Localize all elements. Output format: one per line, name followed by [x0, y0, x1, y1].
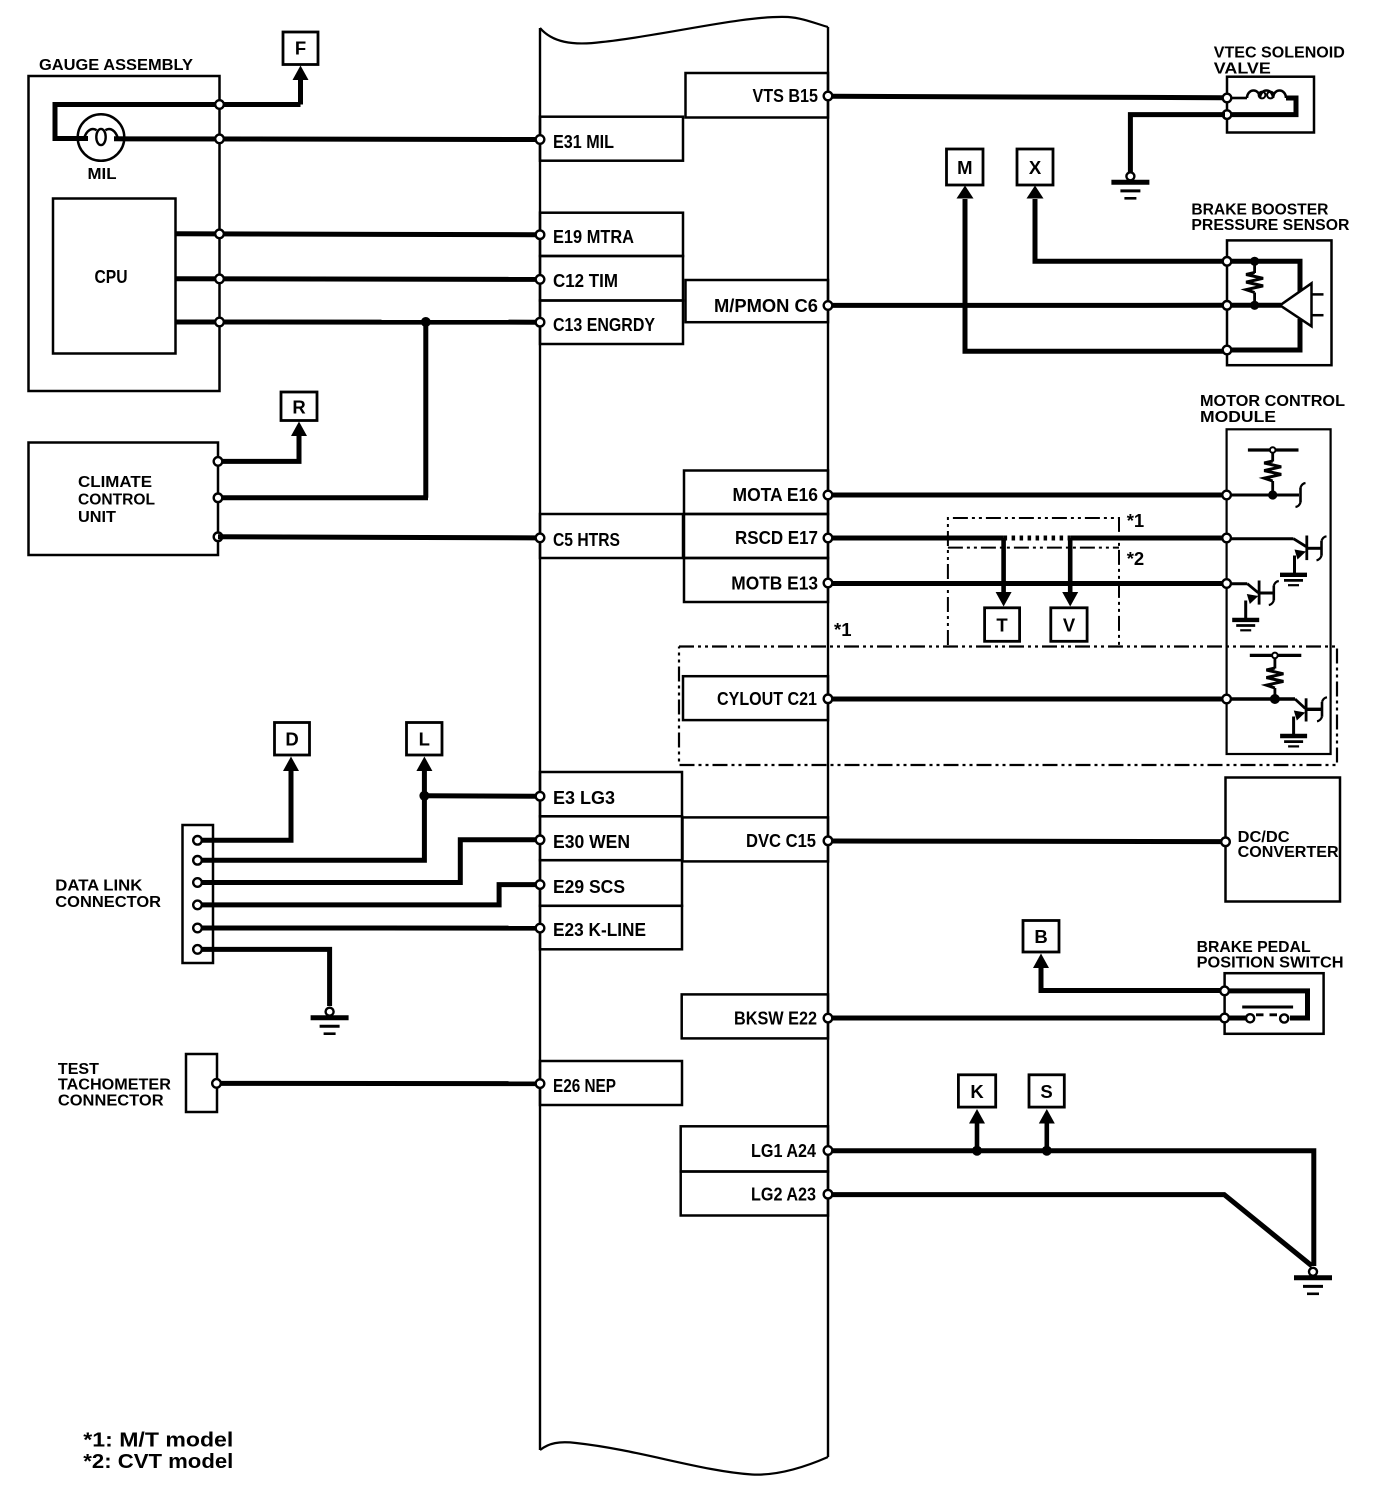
node junction dot CYLOUT [1270, 694, 1280, 704]
svg-text:TEST: TEST [58, 1061, 99, 1078]
op-amp triangle in sensor [1280, 283, 1312, 326]
arrowhead into D [283, 757, 299, 772]
wire MOTA E16 to module [832, 493, 1223, 498]
svg-text:C13 ENGRDY: C13 ENGRDY [553, 314, 656, 335]
ground at Q2 emitter [1232, 620, 1259, 630]
wire MOTB E13 to module [832, 581, 1223, 586]
transistor Q2 (MOTB) [1230, 581, 1273, 619]
svg-text:DVC C15: DVC C15 [746, 830, 816, 851]
data link connector box [183, 825, 214, 963]
ground at Q3 emitter [1280, 736, 1307, 746]
wire RSCD E17 to module (solid+dotted *1/*2) [832, 536, 1004, 541]
svg-text:CONTROL: CONTROL [78, 492, 155, 509]
node pin circle E30 WEN [536, 836, 545, 845]
wire M/PMON C6 to sensor [832, 303, 1223, 308]
wire MIL to E31 [114, 136, 536, 142]
svg-text:M: M [957, 157, 972, 178]
wire MOTA internal [1230, 494, 1299, 497]
dashed M/T option box *1 (CYLOUT) [679, 647, 1337, 766]
pin box E3 LG3 [540, 772, 682, 816]
node pin circle E29 SCS [536, 880, 545, 889]
break mark Q3 collector [1317, 697, 1327, 721]
pin box MOTB E13 [684, 558, 828, 602]
svg-text:K: K [970, 1081, 984, 1102]
svg-text:CPU: CPU [95, 266, 128, 287]
svg-text:*1: *1 [834, 619, 852, 640]
wire sensor supply internal [1229, 261, 1300, 292]
pin box DVC C15 [683, 817, 829, 861]
svg-text:DATA LINK: DATA LINK [55, 878, 142, 895]
pin box RSCD E17 [684, 514, 828, 558]
node pin circle E31 MIL [536, 135, 545, 144]
node junction dot K [972, 1146, 982, 1156]
node junction dot on C13 wire [421, 317, 431, 327]
node module circle MOTA [1222, 491, 1231, 500]
wire B to switch [1041, 966, 1222, 991]
wire MIL loop to F [55, 105, 301, 139]
solenoid coil L [1231, 91, 1296, 115]
wire CPU to C13 ENGRDY [176, 320, 537, 325]
pin box E23 K-LINE [540, 906, 682, 950]
wire DLC pin3 to E30 WEN [198, 840, 537, 883]
wire CPU to C12 TIM [176, 276, 537, 282]
node pin circle C12 TIM [536, 275, 545, 284]
svg-text:CYLOUT C21: CYLOUT C21 [717, 688, 817, 709]
svg-text:E29 SCS: E29 SCS [553, 876, 625, 897]
svg-text:BRAKE BOOSTER: BRAKE BOOSTER [1191, 202, 1328, 219]
connector R box [281, 392, 317, 421]
switch internal wiring [1227, 991, 1308, 1018]
svg-text:D: D [285, 729, 298, 750]
node sensor circle 3 [1223, 346, 1232, 355]
svg-text:CONNECTOR: CONNECTOR [55, 894, 161, 911]
wire: band left edge [539, 28, 541, 1450]
svg-text:M/PMON C6: M/PMON C6 [714, 295, 818, 316]
ground G at VTEC solenoid [1111, 172, 1149, 198]
svg-text:E26 NEP: E26 NEP [553, 1075, 616, 1096]
brake pedal position switch box [1225, 973, 1324, 1034]
node climate circle 1 [214, 457, 223, 466]
svg-text:VTS B15: VTS B15 [753, 85, 819, 106]
pin box MOTA E16 [684, 471, 828, 515]
node switch circle 1 [1220, 987, 1229, 996]
svg-text:B: B [1034, 926, 1047, 947]
svg-text:*2: CVT model: *2: CVT model [83, 1451, 233, 1473]
node pin circle MOTB E13 [824, 579, 833, 588]
DC/DC converter box [1226, 778, 1341, 902]
svg-text:E30 WEN: E30 WEN [553, 831, 630, 852]
svg-text:X: X [1029, 157, 1042, 178]
node DLC pin circles [193, 836, 202, 954]
node junction dot MOTA [1268, 490, 1277, 499]
switch SW contacts [1242, 1006, 1293, 1009]
svg-text:VTEC SOLENOID: VTEC SOLENOID [1214, 45, 1345, 62]
wire DVC C15 to converter [832, 839, 1222, 845]
pin box BKSW E22 [682, 994, 828, 1038]
connector M box [947, 149, 984, 185]
node sensor circle 2 [1223, 301, 1232, 310]
node pin circle E3 LG3 [536, 792, 545, 801]
connector S box [1029, 1075, 1064, 1107]
svg-text:CLIMATE: CLIMATE [78, 474, 152, 491]
svg-text:LG1 A24: LG1 A24 [751, 1140, 817, 1161]
node switch circle 2 [1220, 1014, 1229, 1023]
svg-text:C5 HTRS: C5 HTRS [553, 529, 620, 550]
wire arrow to T [1001, 538, 1006, 593]
dashed option box *1/*2 around T V [948, 518, 1119, 645]
VTEC solenoid valve box [1227, 77, 1314, 133]
wire climate to C13 junction [220, 495, 428, 500]
break mark Q2 collector [1269, 581, 1279, 605]
transistor Q1 (RSCD) [1230, 536, 1321, 575]
node pin circle MOTA E16 [824, 491, 833, 500]
node junction gauge edge row3 [215, 318, 224, 327]
node junction gauge edge row1 [215, 230, 224, 239]
arrowhead into M [957, 186, 974, 199]
node pin circle RSCD E17 [824, 534, 833, 543]
node solenoid circle 1 [1223, 94, 1232, 103]
arrowhead into S [1039, 1109, 1055, 1124]
svg-text:RSCD E17: RSCD E17 [735, 527, 818, 548]
break mark Q1 collector [1317, 536, 1327, 560]
test tachometer connector box [186, 1054, 217, 1112]
node pin circle E23 K-LINE [536, 924, 545, 933]
node module circle CYLOUT [1222, 695, 1231, 704]
svg-text:LG2 A23: LG2 A23 [751, 1184, 816, 1205]
node solenoid circle 2 [1223, 110, 1232, 119]
pin box CYLOUT C21 [683, 676, 828, 720]
node pin circle M/PMON C6 [824, 301, 833, 310]
svg-text:*1: M/T model: *1: M/T model [83, 1429, 233, 1451]
CPU box [53, 199, 176, 354]
wire arrow to V [1068, 538, 1073, 593]
ground G at data link connector [311, 1008, 349, 1034]
wire C13 junction down to climate [423, 322, 428, 498]
arrowhead into L [416, 757, 432, 772]
wire CPU to E19 MTRA [176, 231, 537, 237]
wire climate to R [220, 433, 299, 461]
connector D box [275, 723, 310, 756]
wire DLC pin5 to E23 K-LINE [198, 926, 537, 931]
resistor in module (CYLOUT) [1266, 668, 1283, 688]
motor control module box [1227, 429, 1331, 754]
svg-text:V: V [1063, 615, 1076, 636]
wire LG1 A24 to ground [832, 1151, 1314, 1266]
svg-text:MIL: MIL [88, 166, 117, 183]
pin box E30 WEN [540, 816, 682, 860]
ground at Q1 emitter [1280, 575, 1307, 585]
svg-text:T: T [996, 615, 1008, 636]
node pin circle CYLOUT C21 [824, 695, 833, 704]
wire M to sensor bottom pin [965, 199, 1223, 351]
wire DLC pin4 to E29 SCS [198, 885, 537, 905]
svg-text:BKSW E22: BKSW E22 [734, 1008, 817, 1029]
wire DLC pin1 to D [198, 768, 292, 840]
op-amp output stubs [1312, 293, 1324, 296]
svg-text:*2: *2 [1127, 548, 1145, 569]
node junction on gauge edge (top wire) [215, 100, 224, 109]
pin box VTS B15 [686, 73, 829, 118]
power rail MOTA [1248, 447, 1299, 461]
arrowhead into F [293, 66, 309, 81]
climate control unit box [29, 443, 219, 556]
pin box E19 MTRA [540, 213, 683, 256]
node pin circle VTS B15 [824, 92, 833, 101]
pin box C5 HTRS [540, 514, 683, 558]
svg-text:TACHOMETER: TACHOMETER [58, 1077, 171, 1094]
node pin circle LG2 A23 [824, 1190, 833, 1199]
wire LG2 A23 to ground [832, 1195, 1312, 1266]
svg-text:E23 K-LINE: E23 K-LINE [553, 919, 646, 940]
node pin circle BKSW E22 [824, 1014, 833, 1023]
svg-text:GAUGE ASSEMBLY: GAUGE ASSEMBLY [39, 57, 193, 74]
gauge assembly box [29, 76, 220, 391]
svg-text:MOTB E13: MOTB E13 [731, 573, 818, 594]
connector X box [1017, 149, 1053, 185]
wire X to sensor top pin [1035, 199, 1223, 261]
svg-text:E3 LG3: E3 LG3 [553, 787, 615, 808]
resistor R in sensor [1246, 257, 1263, 310]
svg-text:S: S [1040, 1081, 1052, 1102]
node junction dot on E3 LG3 wire [419, 791, 429, 801]
pin box C13 ENGRDY [540, 301, 683, 345]
wire junction to E3 LG3 [424, 793, 536, 798]
power rail CYLOUT [1250, 653, 1302, 669]
node pin circle C5 HTRS [536, 534, 545, 543]
svg-text:MOTA E16: MOTA E16 [733, 484, 819, 505]
wire S arrow shaft [1045, 1122, 1050, 1151]
transistor Q3 (CYLOUT) [1230, 698, 1321, 734]
break mark MOTA output [1296, 483, 1306, 507]
band bottom torn edge [540, 1442, 828, 1474]
wire CYLOUT C21 to module [832, 697, 1223, 702]
node climate circle 2 [214, 494, 223, 503]
svg-text:MODULE: MODULE [1200, 409, 1276, 426]
resistor in module (MOTA) [1264, 461, 1281, 481]
connector B box [1023, 921, 1059, 953]
node pin circle E26 NEP [536, 1079, 545, 1088]
connector L box [407, 723, 443, 756]
band top torn edge [540, 17, 828, 44]
arrowhead into R [291, 422, 307, 437]
pin box C12 TIM [540, 256, 683, 301]
node pin circle DVC C15 [824, 837, 833, 846]
arrowhead into B [1033, 954, 1049, 969]
pin box E29 SCS [540, 860, 682, 906]
svg-text:F: F [295, 38, 306, 59]
wire sensor ground internal [1229, 319, 1300, 350]
svg-text:POSITION SWITCH: POSITION SWITCH [1197, 955, 1344, 972]
node climate circle 3 [214, 533, 223, 542]
pin box LG2 A23 [681, 1172, 828, 1216]
wire F arrow shaft [298, 77, 303, 105]
connector T box [985, 608, 1020, 642]
pin box M/PMON C6 [686, 280, 829, 322]
svg-text:BRAKE PEDAL: BRAKE PEDAL [1197, 939, 1311, 956]
brake booster pressure sensor box [1227, 240, 1332, 365]
node junction dot S [1042, 1146, 1052, 1156]
connector K box [958, 1075, 995, 1107]
wire sensor signal internal [1229, 303, 1281, 308]
ground G at LG1/LG2 [1294, 1268, 1332, 1294]
wire BKSW E22 to switch [832, 1016, 1222, 1021]
svg-text:R: R [292, 397, 305, 418]
svg-text:E31 MIL: E31 MIL [553, 131, 614, 152]
svg-text:VALVE: VALVE [1214, 61, 1271, 78]
svg-text:MOTOR CONTROL: MOTOR CONTROL [1200, 393, 1345, 410]
node module circle RSCD [1222, 534, 1231, 543]
wire tachometer to E26 NEP [217, 1081, 537, 1086]
lamp MIL [78, 114, 125, 161]
connector F box [283, 32, 318, 65]
pin box LG1 A24 [681, 1126, 828, 1171]
node pin circle LG1 A24 [824, 1146, 833, 1155]
arrowhead into K [969, 1109, 985, 1124]
node junction gauge edge row2 [215, 275, 224, 284]
node module circle MOTB [1222, 579, 1231, 588]
pin box E31 MIL [540, 117, 683, 161]
arrowhead into X [1027, 186, 1044, 199]
svg-text:C12 TIM: C12 TIM [553, 270, 618, 291]
wire DLC pin6 to ground [198, 949, 330, 1006]
svg-text:CONVERTER: CONVERTER [1238, 844, 1339, 861]
svg-text:CONNECTOR: CONNECTOR [58, 1093, 164, 1110]
node converter circle [1221, 838, 1230, 847]
node junction on gauge edge (MIL wire) [215, 135, 224, 144]
wire: band right edge [827, 27, 829, 1457]
svg-text:E19 MTRA: E19 MTRA [553, 226, 634, 247]
svg-text:PRESSURE SENSOR: PRESSURE SENSOR [1191, 217, 1349, 234]
wire DLC pin2 to L [198, 768, 425, 860]
wire solenoid to ground [1130, 115, 1225, 173]
svg-text:L: L [419, 729, 430, 750]
svg-text:*1: *1 [1127, 510, 1145, 531]
svg-text:UNIT: UNIT [78, 509, 116, 526]
pin box E26 NEP [540, 1061, 682, 1105]
node tach connector circle [212, 1079, 221, 1088]
connector V box [1051, 608, 1087, 642]
node sensor circle 1 [1223, 257, 1232, 266]
wire K arrow shaft [975, 1122, 980, 1151]
wire climate to C5 HTRS [218, 537, 536, 538]
node pin circle C13 ENGRDY [536, 318, 545, 327]
wire VTS B15 to solenoid [832, 96, 1223, 97]
node pin circle E19 MTRA [536, 230, 545, 239]
